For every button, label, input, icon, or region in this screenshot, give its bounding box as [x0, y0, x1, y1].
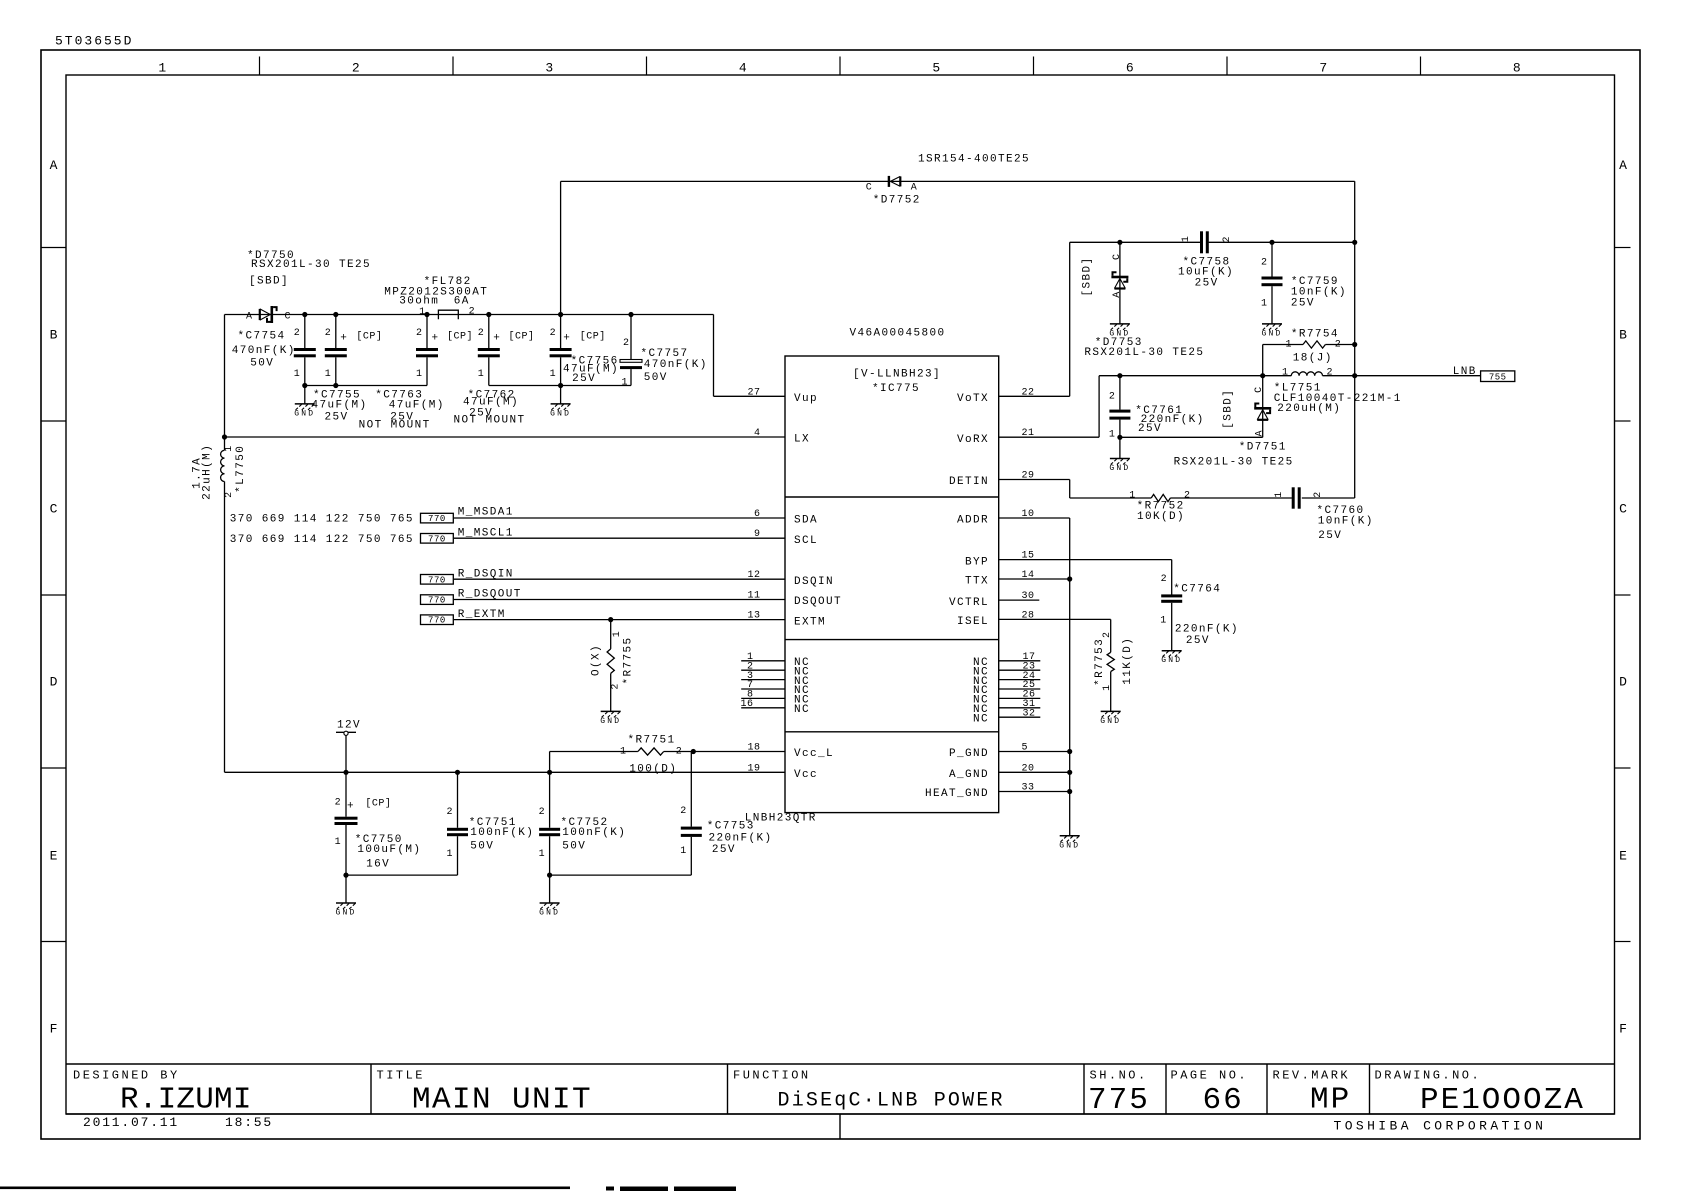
wire LX pin 4 — [225, 436, 786, 438]
svg-text:DRAWING.NO.: DRAWING.NO. — [1375, 1069, 1482, 1083]
svg-text:1: 1 — [158, 61, 167, 76]
svg-text:2: 2 — [623, 338, 630, 349]
ground — [1262, 323, 1282, 325]
svg-text:25V: 25V — [1186, 635, 1210, 647]
svg-text:GND: GND — [600, 717, 621, 726]
svg-text:[CP]: [CP] — [365, 798, 391, 810]
svg-text:18(J): 18(J) — [1293, 353, 1333, 365]
svg-text:2: 2 — [325, 328, 332, 339]
svg-text:25V: 25V — [1318, 530, 1342, 542]
ferrite bead FL782 — [438, 310, 458, 319]
svg-text:D: D — [50, 675, 59, 690]
svg-text:1: 1 — [325, 369, 332, 380]
svg-text:2011.07.11: 2011.07.11 — [83, 1115, 179, 1130]
diode D7750 RSX201L-30 — [260, 309, 271, 320]
svg-text:2: 2 — [294, 328, 301, 339]
svg-text:E: E — [50, 849, 59, 864]
resistor R7751 100ohm — [549, 752, 551, 773]
svg-text:1: 1 — [335, 837, 342, 848]
svg-text:1: 1 — [1274, 491, 1285, 498]
svg-text:P_GND: P_GND — [949, 748, 989, 760]
svg-text:F: F — [1619, 1022, 1628, 1037]
svg-text:HEAT_GND: HEAT_GND — [925, 788, 989, 800]
svg-text:GND: GND — [550, 409, 571, 418]
wire C7758 rail — [1070, 241, 1201, 243]
svg-text:C: C — [1254, 386, 1265, 393]
svg-text:*D7751: *D7751 — [1239, 441, 1287, 453]
svg-text:GND: GND — [1161, 656, 1182, 665]
svg-text:C: C — [1112, 253, 1123, 260]
svg-text:[V-LLNBH23]: [V-LLNBH23] — [853, 369, 941, 381]
svg-text:220nF(K): 220nF(K) — [709, 832, 773, 844]
svg-text:LNBH23QTR: LNBH23QTR — [745, 813, 817, 825]
svg-text:1: 1 — [1129, 491, 1136, 502]
svg-text:22uH(M): 22uH(M) — [201, 444, 213, 500]
svg-text:PAGE NO.: PAGE NO. — [1171, 1069, 1249, 1083]
IC775 right NC stubs — [999, 660, 1041, 662]
inductor L7751 220uH — [1291, 372, 1322, 376]
svg-text:2: 2 — [416, 328, 423, 339]
svg-text:GND: GND — [1059, 841, 1080, 850]
wire BYP pin 15 to C7764 — [999, 559, 1172, 561]
svg-text:[SBD]: [SBD] — [1082, 256, 1094, 296]
svg-text:1: 1 — [1261, 298, 1268, 309]
svg-text:SH.NO.: SH.NO. — [1090, 1069, 1148, 1083]
capacitor C7757 470nF — [630, 315, 632, 360]
svg-text:25V: 25V — [712, 844, 736, 856]
svg-text:11K(D): 11K(D) — [1122, 637, 1134, 685]
svg-text:220uH(M): 220uH(M) — [1277, 403, 1341, 415]
svg-text:100(D): 100(D) — [629, 763, 677, 775]
svg-text:2: 2 — [1184, 491, 1191, 502]
svg-text:+: + — [493, 333, 501, 345]
ground — [1162, 650, 1182, 652]
svg-text:A: A — [1619, 158, 1628, 173]
diode D7752 1SR154-400TE25 — [890, 176, 900, 186]
svg-text:370 669 114 122 750 765: 370 669 114 122 750 765 — [230, 534, 414, 546]
capacitor C7754 470nF — [304, 315, 306, 349]
net R_DSQIN — [421, 575, 454, 585]
svg-text:[CP]: [CP] — [509, 330, 535, 342]
ground — [601, 710, 621, 712]
svg-text:+: + — [347, 801, 355, 813]
svg-text:2: 2 — [611, 683, 622, 690]
svg-text:1: 1 — [478, 369, 485, 380]
wire ADDR pin 10 to ground bus — [999, 517, 1070, 519]
bottom cut-off bar — [0, 1187, 570, 1190]
svg-text:RSX201L-30 TE25: RSX201L-30 TE25 — [251, 259, 371, 271]
svg-text:2: 2 — [352, 61, 361, 76]
svg-text:4: 4 — [739, 61, 748, 76]
svg-text:25V: 25V — [572, 373, 596, 385]
wire EXTM pin 13 — [454, 619, 785, 621]
resistor R7753 11K — [1107, 652, 1114, 671]
svg-text:1: 1 — [539, 849, 546, 860]
svg-text:770: 770 — [428, 514, 446, 524]
svg-text:470nF(K): 470nF(K) — [644, 359, 708, 371]
svg-text:*D7752: *D7752 — [873, 194, 921, 206]
wire C7752-C7753 bottom — [550, 874, 692, 876]
wire cap bank bottom rail left — [305, 385, 427, 387]
ground — [336, 902, 356, 904]
capacitor C7763 47uF — [426, 315, 428, 349]
net R_EXTM — [421, 615, 454, 625]
title block top line — [66, 1063, 1615, 1065]
ground — [1110, 323, 1130, 325]
svg-text:LNB: LNB — [1453, 366, 1477, 378]
wire VCTRL stub pin 30 — [999, 599, 1040, 601]
svg-text:25V: 25V — [1291, 297, 1315, 309]
svg-text:770: 770 — [428, 596, 446, 606]
svg-text:25V: 25V — [1195, 278, 1219, 290]
svg-text:Vcc: Vcc — [794, 769, 818, 781]
svg-text:B: B — [1619, 328, 1628, 343]
svg-text:DSQIN: DSQIN — [794, 576, 834, 588]
resistor R7755 0ohm — [610, 620, 612, 649]
wire DSQIN pin 12 — [454, 578, 785, 580]
svg-text:SDA: SDA — [794, 515, 818, 527]
svg-text:30ohm: 30ohm — [399, 296, 439, 308]
svg-text:M_MSDA1: M_MSDA1 — [458, 507, 514, 519]
svg-text:GND: GND — [335, 909, 356, 918]
svg-text:NOT MOUNT: NOT MOUNT — [359, 420, 431, 432]
svg-text:3: 3 — [545, 61, 554, 76]
svg-text:NC: NC — [794, 704, 810, 716]
svg-text:[CP]: [CP] — [580, 330, 606, 342]
svg-text:+: + — [432, 333, 440, 345]
svg-text:12V: 12V — [337, 720, 361, 732]
svg-text:2: 2 — [676, 747, 683, 758]
wire SCL pin 9 — [454, 537, 785, 539]
svg-text:FUNCTION: FUNCTION — [733, 1069, 811, 1083]
wire TTX pin 14 — [999, 578, 1070, 580]
wire right main vertical — [1354, 181, 1356, 498]
svg-text:2: 2 — [680, 806, 687, 817]
svg-text:*C7764: *C7764 — [1173, 583, 1221, 595]
svg-text:C: C — [285, 311, 292, 322]
row ticks — [41, 247, 66, 249]
svg-text:6: 6 — [1126, 61, 1135, 76]
svg-text:GND: GND — [1100, 717, 1121, 726]
svg-text:50V: 50V — [562, 841, 586, 853]
svg-text:2: 2 — [469, 307, 476, 318]
capacitor C7752 100nF — [549, 772, 551, 828]
capacitor C7753 220nF — [690, 752, 692, 827]
ground — [1101, 710, 1121, 712]
capacitor C7764 220nF — [1171, 593, 1173, 595]
svg-text:2: 2 — [478, 328, 485, 339]
IC775 left NC stubs — [741, 660, 785, 662]
svg-text:Vcc_L: Vcc_L — [794, 748, 834, 760]
svg-text:66: 66 — [1203, 1083, 1244, 1118]
wire P_GND pin 5 — [999, 751, 1070, 753]
wire VoTX pin 22 — [999, 395, 1070, 397]
svg-text:ADDR: ADDR — [957, 515, 989, 527]
wire top rail — [560, 181, 562, 314]
svg-text:TTX: TTX — [965, 576, 989, 588]
svg-text:RSX201L-30 TE25: RSX201L-30 TE25 — [1174, 457, 1294, 469]
svg-text:*R7755: *R7755 — [622, 636, 634, 684]
svg-text:50V: 50V — [470, 841, 494, 853]
svg-text:C: C — [50, 502, 59, 517]
wire SDA pin 6 — [454, 517, 785, 519]
capacitor C7761 220nF — [1119, 376, 1121, 410]
svg-text:[SBD]: [SBD] — [1223, 389, 1235, 429]
svg-text:*C7754: *C7754 — [237, 330, 285, 342]
svg-text:MP: MP — [1310, 1083, 1351, 1118]
svg-text:+: + — [340, 333, 348, 345]
diode D7751 RSX201L-30 — [1262, 376, 1264, 438]
inductor L7750 22uH — [221, 450, 225, 481]
title block dividers — [370, 1064, 372, 1114]
resistor R7752 10K — [1151, 494, 1170, 501]
ground — [540, 902, 560, 904]
svg-text:VoRX: VoRX — [957, 434, 989, 446]
svg-text:2: 2 — [446, 807, 453, 818]
svg-text:GND: GND — [539, 909, 560, 918]
svg-text:C: C — [1619, 502, 1628, 517]
net R_DSQOUT — [421, 595, 454, 605]
svg-text:755: 755 — [1489, 373, 1507, 383]
svg-text:*R7753: *R7753 — [1094, 638, 1106, 686]
column ticks — [259, 57, 261, 76]
svg-text:1: 1 — [620, 747, 627, 758]
svg-text:2: 2 — [335, 798, 342, 809]
svg-text:2: 2 — [1327, 368, 1334, 379]
svg-text:2: 2 — [224, 491, 235, 498]
resistor R7754 18ohm — [1263, 344, 1303, 346]
svg-text:1: 1 — [1285, 340, 1292, 351]
svg-text:O(X): O(X) — [591, 644, 603, 676]
svg-text:[SBD]: [SBD] — [249, 275, 289, 287]
svg-text:16V: 16V — [366, 859, 390, 871]
svg-text:470nF(K): 470nF(K) — [232, 345, 296, 357]
svg-text:770: 770 — [428, 575, 446, 585]
svg-text:A: A — [246, 311, 253, 322]
left vertical wire with L7750 — [224, 315, 226, 451]
svg-text:A_GND: A_GND — [949, 769, 989, 781]
svg-text:*C7753: *C7753 — [707, 820, 755, 832]
capacitor C7759 10nF — [1271, 242, 1273, 276]
wire cap bank rail — [225, 314, 714, 316]
svg-text:RSX201L-30 TE25: RSX201L-30 TE25 — [1084, 347, 1204, 359]
wire C7750-C7751 bottom — [346, 874, 458, 876]
svg-text:Vup: Vup — [794, 393, 818, 405]
svg-text:2: 2 — [1261, 258, 1268, 269]
svg-text:775: 775 — [1088, 1083, 1150, 1118]
svg-text:10nF(K): 10nF(K) — [1318, 516, 1374, 528]
wire 12V rail — [225, 771, 786, 773]
wire DETIN pin 29 — [999, 479, 1070, 481]
svg-text:[CP]: [CP] — [356, 330, 382, 342]
svg-text:*C7757: *C7757 — [641, 348, 689, 360]
svg-text:MAIN UNIT: MAIN UNIT — [412, 1083, 592, 1118]
svg-text:TOSHIBA CORPORATION: TOSHIBA CORPORATION — [1334, 1119, 1547, 1134]
svg-text:2: 2 — [1161, 574, 1168, 585]
svg-text:2: 2 — [1222, 236, 1233, 243]
svg-text:1: 1 — [1160, 616, 1167, 627]
svg-text:R.IZUMI: R.IZUMI — [120, 1083, 252, 1118]
capacitor C7760 10nF — [1292, 487, 1295, 508]
svg-text:2: 2 — [1335, 340, 1342, 351]
svg-text:1: 1 — [419, 307, 426, 318]
svg-text:DSQOUT: DSQOUT — [794, 596, 842, 608]
svg-text:1: 1 — [446, 849, 453, 860]
svg-text:2: 2 — [550, 328, 557, 339]
svg-text:100nF(K): 100nF(K) — [470, 827, 534, 839]
svg-text:VoTX: VoTX — [957, 393, 989, 405]
strip divider — [839, 1114, 841, 1139]
svg-text:ISEL: ISEL — [957, 616, 989, 628]
svg-text:LX: LX — [794, 434, 810, 446]
svg-text:BYP: BYP — [965, 556, 989, 568]
svg-text:[CP]: [CP] — [447, 330, 473, 342]
svg-text:*R7754: *R7754 — [1291, 328, 1339, 340]
svg-text:GND: GND — [1261, 329, 1282, 338]
svg-text:18:55: 18:55 — [225, 1115, 273, 1130]
ground — [295, 403, 315, 405]
svg-text:E: E — [1619, 849, 1628, 864]
svg-text:5T03655D: 5T03655D — [55, 34, 133, 49]
svg-text:C: C — [866, 183, 873, 194]
svg-text:A: A — [911, 183, 918, 194]
svg-text:5: 5 — [932, 61, 941, 76]
svg-text:1: 1 — [1109, 429, 1116, 440]
ground — [1060, 835, 1080, 837]
svg-text:EXTM: EXTM — [794, 616, 826, 628]
wire cap bank bottom rail right — [489, 385, 631, 387]
svg-text:GND: GND — [1109, 464, 1130, 473]
svg-text:*L7750: *L7750 — [235, 445, 247, 493]
svg-text:1SR154-400TE25: 1SR154-400TE25 — [918, 154, 1030, 166]
svg-text:2: 2 — [1313, 491, 1324, 498]
svg-text:F: F — [50, 1022, 59, 1037]
svg-text:370 669 114 122 750 765: 370 669 114 122 750 765 — [230, 513, 414, 525]
svg-text:2: 2 — [1109, 392, 1116, 403]
svg-text:47uF(M): 47uF(M) — [312, 399, 368, 411]
svg-text:1: 1 — [224, 445, 235, 452]
svg-text:10K(D): 10K(D) — [1137, 511, 1185, 523]
svg-text:2: 2 — [539, 807, 546, 818]
svg-text:+: + — [563, 333, 571, 345]
svg-text:VCTRL: VCTRL — [949, 597, 989, 609]
svg-text:100uF(M): 100uF(M) — [357, 844, 421, 856]
svg-text:220nF(K): 220nF(K) — [1175, 623, 1239, 635]
svg-text:REV.MARK: REV.MARK — [1273, 1069, 1351, 1083]
svg-text:A: A — [50, 158, 59, 173]
svg-text:1: 1 — [416, 369, 423, 380]
wire DSQOUT pin 11 — [454, 599, 785, 601]
svg-text:SCL: SCL — [794, 535, 818, 547]
capacitor C7756 47uF — [560, 315, 562, 349]
svg-text:DiSEqC·LNB POWER: DiSEqC·LNB POWER — [778, 1090, 1005, 1113]
svg-text:25V: 25V — [325, 411, 349, 423]
svg-text:R_DSQIN: R_DSQIN — [458, 568, 514, 580]
capacitor C7762 47uF — [488, 315, 490, 349]
svg-text:*R7751: *R7751 — [628, 734, 676, 746]
svg-text:DESIGNED BY: DESIGNED BY — [73, 1069, 180, 1083]
svg-text:1: 1 — [550, 369, 557, 380]
svg-text:770: 770 — [428, 534, 446, 544]
svg-text:1: 1 — [680, 846, 687, 857]
svg-text:B: B — [50, 328, 59, 343]
svg-text:50V: 50V — [250, 357, 274, 369]
svg-text:1: 1 — [1181, 236, 1192, 243]
wire LNB rail with L7751 — [1099, 375, 1291, 377]
svg-text:M_MSCL1: M_MSCL1 — [458, 527, 514, 539]
ground — [551, 403, 571, 405]
svg-text:R_DSQOUT: R_DSQOUT — [458, 589, 522, 601]
svg-text:V46A00045800: V46A00045800 — [849, 328, 945, 340]
svg-text:DETIN: DETIN — [949, 476, 989, 488]
svg-text:6A: 6A — [454, 296, 470, 308]
diode D7753 RSX201L-30 — [1119, 242, 1121, 323]
svg-text:1: 1 — [294, 369, 301, 380]
svg-text:7: 7 — [1319, 61, 1328, 76]
svg-text:*IC775: *IC775 — [872, 383, 920, 395]
svg-text:100nF(K): 100nF(K) — [562, 827, 626, 839]
svg-text:TITLE: TITLE — [377, 1069, 426, 1083]
svg-text:PE1OOOZA: PE1OOOZA — [1420, 1083, 1585, 1118]
svg-text:25V: 25V — [1138, 423, 1162, 435]
capacitor C7755 47uF — [335, 315, 337, 349]
wire VoRX pin 21 — [999, 436, 1099, 438]
ground — [1110, 458, 1130, 460]
svg-text:NC: NC — [973, 713, 989, 725]
svg-text:47uF(M): 47uF(M) — [389, 399, 445, 411]
svg-text:50V: 50V — [644, 372, 668, 384]
svg-text:2: 2 — [1102, 631, 1113, 638]
wire HEAT_GND pin 33 — [999, 791, 1070, 793]
capacitor C7750 100uF — [345, 772, 347, 816]
op-amp U1 IC775 V-LLNBH23 box — [785, 356, 999, 813]
svg-text:1: 1 — [621, 377, 628, 388]
wire A_GND pin 20 — [999, 771, 1070, 773]
svg-text:1: 1 — [612, 631, 623, 638]
svg-text:D: D — [1619, 675, 1628, 690]
svg-text:8: 8 — [1513, 61, 1522, 76]
svg-text:1: 1 — [1282, 368, 1289, 379]
svg-text:NOT MOUNT: NOT MOUNT — [454, 415, 526, 427]
wire ISEL pin 28 to R7753 — [999, 618, 1111, 620]
capacitor C7751 100nF — [457, 772, 459, 828]
svg-text:A: A — [1112, 291, 1123, 298]
svg-text:A: A — [1254, 430, 1265, 437]
svg-text:770: 770 — [428, 616, 446, 626]
